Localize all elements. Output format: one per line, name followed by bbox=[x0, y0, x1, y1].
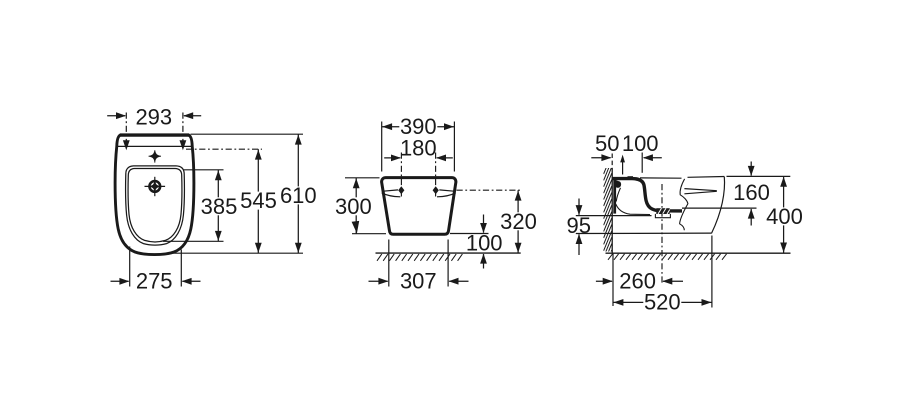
front view: mounting holes centerline bbox=[457, 189, 523, 191]
svg-text:100: 100 bbox=[466, 231, 503, 256]
dimension 545 centerline extension bbox=[186, 148, 262, 150]
svg-text:50: 50 bbox=[595, 131, 619, 156]
svg-text:100: 100 bbox=[622, 131, 659, 156]
front view: body outline bbox=[382, 178, 456, 235]
dimension 300 extension top bbox=[345, 177, 380, 179]
front view: left inlet upper line bbox=[382, 190, 398, 191]
svg-text:320: 320 bbox=[500, 209, 537, 234]
top view: bidet outer outline bbox=[115, 135, 194, 255]
dimension 50 boundary arrow bbox=[622, 160, 624, 175]
side view: rim section top bar bbox=[613, 179, 683, 211]
dimension 293 extension line right bbox=[182, 113, 184, 144]
side view: tap hole bump on rim bbox=[628, 176, 634, 178]
dimension 520 line and arrows bbox=[613, 301, 712, 303]
dimension 293 arrows bbox=[107, 115, 125, 117]
dimension extension wall line below floor bbox=[612, 254, 614, 306]
side view: section break line bbox=[680, 179, 688, 230]
front view: floor hatching bbox=[377, 254, 462, 261]
side view: drain centerline bbox=[661, 184, 663, 285]
svg-text:275: 275 bbox=[136, 269, 173, 294]
top view: seat back line bbox=[117, 145, 191, 147]
front view: floor line bbox=[376, 252, 521, 254]
side view: trap bottom line (95 top extension) bbox=[576, 215, 652, 217]
dimension 180 extension lines bbox=[400, 153, 402, 197]
dimension 275 arrows bbox=[111, 280, 129, 282]
svg-text:545: 545 bbox=[240, 188, 277, 213]
dimension 545 line and arrows bbox=[257, 149, 259, 253]
dimension 390 extension lines bbox=[381, 122, 383, 172]
dimension 50-100 arrows and lines bbox=[591, 157, 610, 159]
side view: bowl front inner curve bbox=[616, 188, 620, 202]
dimension 293 extension line left bbox=[125, 113, 127, 144]
side view: body top edge bbox=[640, 177, 682, 179]
dimension 520 extension right bbox=[711, 236, 713, 308]
svg-text:385: 385 bbox=[201, 194, 238, 219]
side view: wall line bbox=[611, 168, 613, 254]
dimension 100 arrows bbox=[483, 215, 485, 233]
dimension 307 extension lines bbox=[388, 240, 390, 287]
top view: inner rim inner line bbox=[128, 169, 182, 242]
dimension 275 extension lines bbox=[129, 247, 131, 287]
side view: rim section wall column bbox=[613, 177, 616, 214]
svg-text:307: 307 bbox=[400, 269, 437, 294]
svg-text:520: 520 bbox=[644, 290, 681, 315]
dimension 385 extension lines bbox=[184, 169, 224, 171]
side view: 160 bottom thin line bbox=[682, 207, 757, 209]
svg-text:95: 95 bbox=[566, 213, 590, 238]
side view: floor line bbox=[606, 252, 791, 254]
dimension 385 line and arrows bbox=[217, 170, 219, 242]
front view: right mounting hole bbox=[433, 186, 439, 194]
svg-text:160: 160 bbox=[733, 180, 770, 205]
side view: spout channel lines bbox=[684, 189, 716, 191]
top view: drain crosshair bbox=[154, 177, 156, 196]
dimension 300 extension bottom bbox=[352, 233, 386, 235]
svg-text:180: 180 bbox=[400, 136, 437, 161]
top view: inner rim outer line bbox=[126, 166, 185, 245]
side view: drain pipe outline bbox=[655, 214, 670, 218]
top view: small mounting crosshair bbox=[150, 151, 160, 161]
dimension 180 arrows bbox=[384, 157, 400, 159]
side view: rim fixing hook bbox=[616, 180, 621, 188]
front view: bottom edge extension bbox=[450, 233, 489, 235]
svg-text:400: 400 bbox=[766, 204, 803, 229]
dimension 300 line and arrows bbox=[355, 178, 357, 234]
front view: right inlet upper line bbox=[439, 190, 455, 191]
dimension 390 line and arrows bbox=[382, 126, 455, 128]
dimension 95 arrows bbox=[578, 199, 580, 215]
dimension 610 line and arrows bbox=[297, 134, 299, 253]
top view: top edge thick line bbox=[120, 133, 189, 136]
svg-text:293: 293 bbox=[135, 105, 172, 130]
side view: wall hatching bbox=[604, 154, 612, 270]
dimension 320 line and arrows bbox=[517, 190, 519, 253]
front view: left mounting hole bbox=[398, 186, 404, 194]
dimension 400 line and arrows bbox=[783, 176, 785, 253]
front view: right inlet arc bbox=[437, 193, 456, 197]
dimension 160 extension top bbox=[727, 175, 791, 177]
svg-text:610: 610 bbox=[280, 183, 317, 208]
dimension 100 extension bbox=[641, 153, 643, 173]
dimension 260 arrows bbox=[596, 280, 612, 282]
dimension 610 extension top bbox=[191, 133, 304, 135]
side view: body bottom edge extended to 95 dim bbox=[576, 232, 712, 234]
side view: floor hatching bbox=[608, 254, 727, 260]
side view: body back edge bbox=[712, 177, 725, 234]
dimension 307 arrows bbox=[369, 280, 388, 282]
svg-text:300: 300 bbox=[335, 194, 372, 219]
dimension 160 arrows bbox=[750, 162, 752, 176]
side view: bowl underside curves bbox=[616, 204, 650, 214]
front view: left inlet arc bbox=[382, 193, 401, 197]
extension line bottom of top view bbox=[168, 252, 303, 254]
side view: drain outlet block bbox=[656, 208, 669, 214]
